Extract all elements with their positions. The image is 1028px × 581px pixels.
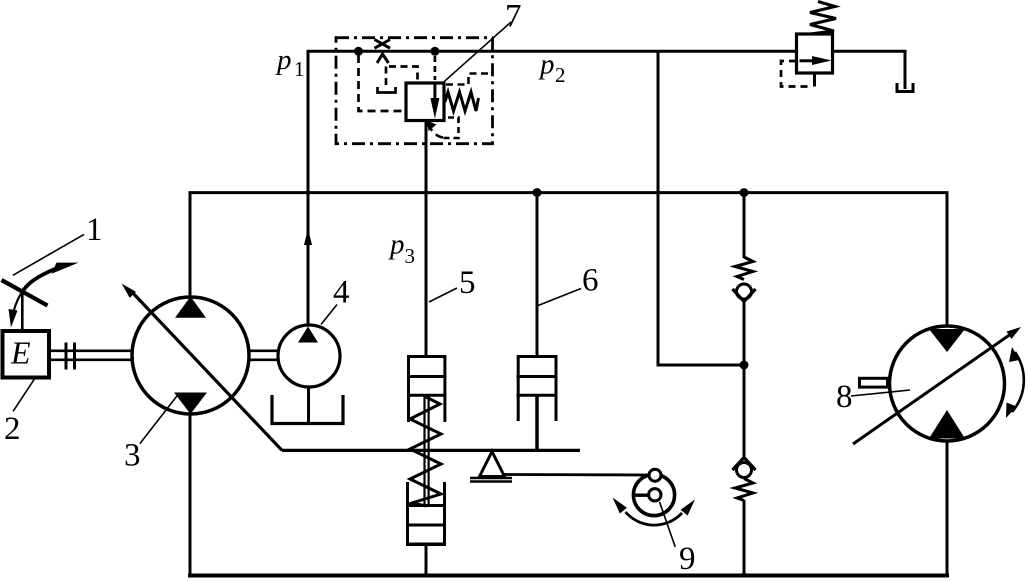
node: junction dot right on top line [430,47,439,56]
label 4 [333,275,350,311]
svg-text:6: 6 [582,263,599,299]
check valve lower: ball [737,463,752,478]
relief valve: dashed pilot loop [781,61,812,87]
check valve upper: seat [733,289,756,302]
lever bar linking cylinders to pump yoke [282,449,580,452]
valve 7: dashed pilot above spring to enclosure edge [446,74,491,85]
motor 8: top flow triangle [929,329,965,352]
leader line for label 9 [660,502,676,547]
relief valve: body square [797,34,833,73]
leader line for label 7 [444,22,511,82]
valve 7: dashed pilot line from left junction down and right [359,55,405,111]
motor 8: shaft key rectangle [860,378,888,387]
motor E box [3,331,50,378]
label p1 [275,44,305,81]
control lever: curved actuation arrow [24,263,79,290]
leader line for label 1 [13,234,84,275]
valve 7: dashed drain box below spring [440,118,459,139]
check valve upper: spring [735,257,753,280]
relief valve: spring above body [810,2,836,35]
leader line for label 2 [13,379,34,411]
node: junction dot bus/check column [740,188,749,197]
svg-text:5: 5 [459,265,476,301]
control lever: small down arrow [9,294,22,328]
tank under pump 4 [272,395,343,424]
wire: check valve column upper segments [743,193,746,365]
valve 7: dashed line from drain to spool top [389,67,418,82]
wire: auxiliary pump 4 drain to tank [307,387,310,423]
motor 8: circle [890,326,1005,441]
svg-text:p: p [538,49,555,81]
label 2 [4,411,21,447]
check valve upper: ball [737,284,752,299]
wire: top pressure line from p1 corner to relief valve drain [308,51,905,325]
leader line for label 6 [538,289,581,306]
svg-text:3: 3 [124,438,141,474]
leader line for label 5 [429,288,457,302]
svg-text:7: 7 [505,0,522,35]
pump 3: main variable pump circle [132,297,249,414]
valve 7: drain tank symbol [378,87,396,93]
pump 3: top flow triangle [175,297,206,318]
shaft: double line from pump 3 to pump 4 [248,351,279,360]
label p2 [538,49,566,88]
check valve lower: spring [735,479,753,501]
svg-text:p: p [275,44,292,76]
valve 7: dashed pilot from right junction to spool [434,56,437,80]
wire: branch from bus to cylinder 6 [536,193,539,356]
cylinder 5: upper body [407,357,446,423]
svg-text:4: 4 [333,275,350,311]
svg-text:9: 9 [679,541,696,577]
wire: middle bus line y=192.6 [189,191,949,194]
svg-text:1: 1 [294,57,305,81]
relief valve: drain stub below body [813,73,816,87]
cylinder 5: spring [410,397,441,506]
label E (electric motor) [10,335,31,371]
valve 7: curved adjustment arrow at spool bottom [427,121,444,138]
valve 7: spring on right of spool [445,92,479,111]
cylinder 5: lower dashpot body [406,482,446,544]
leader line for label 4 [321,305,337,325]
label 7 [505,0,522,35]
wire: left frame from bus corner down to pump 3 top [189,193,192,297]
cylinder 6: body [517,357,558,422]
wire: pump 3 bottom line to bottom bus [189,413,192,575]
valve 7: dashed drain stem [385,67,388,87]
svg-text:2: 2 [4,411,21,447]
pump 3: bottom flow triangle [174,393,207,415]
svg-text:p: p [388,229,405,261]
eccentric 9: top pin circle [649,469,661,481]
svg-text:1: 1 [86,212,103,248]
eccentric 9: rotation arc arrow [613,498,696,526]
label 6 [582,263,599,299]
pump 4: flow triangle [298,327,318,343]
pump 3: variable displacement arrow [122,284,283,451]
wire: branch riser x=658 from top line down with elbow to check-valve column [658,51,744,365]
leader line for label 8 [851,390,910,396]
control lever: stem above E box [21,292,24,330]
node: junction dot left on top line [354,47,363,56]
leader line for label 3 [140,395,178,444]
svg-text:8: 8 [836,379,853,415]
motor 8: bidirectional rotation arc [1006,347,1024,418]
label 9 [679,541,696,577]
motor 8: bottom flow triangle [929,410,965,439]
svg-text:3: 3 [405,244,416,268]
label 8 [836,379,853,415]
label p3 [388,229,415,269]
shaft coupling bars [66,343,75,370]
fulcrum triangle [480,452,505,477]
wire: bottom return bus [188,574,949,578]
valve 7: flow arrow inside spool [430,83,439,119]
pump 4: auxiliary pump circle [278,325,340,387]
link rod from fulcrum to eccentric 9 [503,473,649,476]
eccentric 9: center pin circle [649,489,661,501]
svg-text:2: 2 [555,63,566,87]
svg-text:E: E [10,335,31,371]
wire: cylinder 5 lower rod to bottom bus [425,544,428,575]
node: junction dot check column / branch elbow [740,361,749,370]
flow arrow on p1 riser [304,229,312,246]
motor 8: variable displacement arrow [853,327,1021,444]
label 1 [86,212,103,248]
shaft: double line from E to pump 3 [49,351,133,360]
relief valve: flow arrow inside body [800,56,832,65]
eccentric 9: crank line [634,494,649,497]
node: junction dot bus/cylinder 6 [533,188,542,197]
fulcrum ground lines [470,478,512,482]
eccentric 9: outer circle [633,474,674,515]
valve 7: orifice symbol on top line [375,40,391,64]
control lever: handle stroke [2,280,48,306]
valve 7: spool body square [406,83,444,121]
cylinder 6: piston rod [535,395,539,450]
wire: motor 8 top and bottom lines [946,193,949,575]
label 5 [459,265,476,301]
wire: check valve column lower segments [743,365,746,575]
valve 7: outer dash-dot enclosure [336,38,493,144]
check valve lower: seat [733,458,756,471]
cylinder 5: piston rod double line [425,395,429,504]
label 3 [124,438,141,474]
relief valve: tank symbol at drain [897,83,913,92]
wire: p3 line from valve 7 bottom to cylinder 5 [425,121,428,357]
